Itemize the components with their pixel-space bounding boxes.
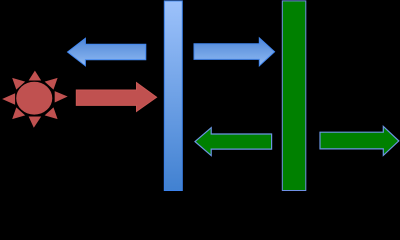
green vertical bar — [282, 1, 306, 191]
red arrow (sun to blue bar) — [76, 83, 156, 112]
green left arrow (between bars) — [195, 128, 272, 156]
blue left arrow (reflected back to space) — [68, 38, 146, 66]
blue right arrow (between bars) — [194, 38, 275, 66]
green right arrow (out to space) — [320, 126, 399, 155]
blue vertical bar — [164, 1, 182, 191]
sun — [2, 71, 68, 128]
